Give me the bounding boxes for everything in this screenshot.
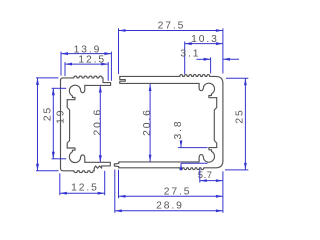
dim 3.1 left arrow xyxy=(204,58,211,61)
left profile top lip xyxy=(80,85,85,92)
dim 13.9 left extension xyxy=(60,52,62,76)
right profile channel ceiling xyxy=(120,82,199,84)
left profile bottom ribs xyxy=(73,171,94,173)
left profile top flange outline xyxy=(61,78,74,81)
dim 3.1 right tail xyxy=(223,58,239,60)
dim 27.5/10.3/3.1 right extension xyxy=(222,28,224,73)
svg-text:20.6: 20.6 xyxy=(142,108,153,136)
right profile bottom flange tip with barb xyxy=(114,162,119,168)
right profile right wall outer xyxy=(222,83,224,160)
svg-text:3.1: 3.1 xyxy=(180,49,200,60)
left profile bottom tab with teeth xyxy=(94,162,110,171)
dim 5.7 left extension xyxy=(199,169,201,183)
svg-text:19: 19 xyxy=(55,109,66,124)
dim 19 line xyxy=(52,88,54,159)
right profile top right corner xyxy=(211,76,223,83)
left profile bottom lip xyxy=(80,155,85,162)
dim 12.5 bottom right extension xyxy=(104,171,106,195)
svg-text:27.5: 27.5 xyxy=(158,21,186,32)
dim 3.8 leader and top arrow xyxy=(180,141,182,148)
right profile bottom surface xyxy=(119,167,179,169)
right profile bottom ribs xyxy=(179,168,205,170)
dim 27.5 top line xyxy=(119,30,223,32)
svg-text:20.6: 20.6 xyxy=(92,108,103,136)
dim 3.1 extension xyxy=(210,57,212,73)
dim 12.5 top right extension xyxy=(107,62,109,81)
left profile top tongue xyxy=(85,78,111,86)
dim 25 left top extension xyxy=(36,77,59,79)
dim 13.9 line xyxy=(61,53,111,55)
dim 3.1 line left tail xyxy=(197,58,211,60)
dim 3.8 bottom arrow and tail xyxy=(180,163,183,170)
right profile bottom screw boss xyxy=(204,148,217,163)
dim 19 bottom extension xyxy=(52,158,67,160)
left profile channel floor xyxy=(85,161,103,163)
left profile outer wall xyxy=(60,80,62,168)
svg-text:25: 25 xyxy=(43,106,54,121)
dim 12.5 top line xyxy=(65,63,108,65)
dim 20.6 right line xyxy=(149,84,151,162)
right profile top screw boss xyxy=(204,83,217,98)
dim 12.5 bottom line xyxy=(60,192,105,194)
dim 25 left bottom extension xyxy=(36,170,59,172)
dim 3.8 bottom extension xyxy=(181,162,208,164)
dim 19 top extension xyxy=(52,87,67,89)
dim 3.8 top extension xyxy=(178,147,208,149)
left profile top screw boss xyxy=(67,85,80,100)
svg-text:12.5: 12.5 xyxy=(71,183,99,194)
left profile bottom flange outline xyxy=(61,168,74,171)
dim 25 right top extension xyxy=(226,77,248,79)
dim 3.1 right arrow xyxy=(223,58,230,61)
dim 5.7/27.5/28.9 right extension xyxy=(222,171,224,213)
dim 5.7 line xyxy=(200,180,223,182)
left profile inner wall with rib bump xyxy=(67,100,69,148)
right profile top lip xyxy=(199,83,204,90)
dim 20.6 left line xyxy=(99,86,101,163)
right profile top ribs xyxy=(179,75,211,77)
right profile inner wall with rib bump xyxy=(214,98,216,148)
dim 25 left line xyxy=(37,78,39,171)
right profile bottom lip xyxy=(199,155,204,162)
right profile bottom right corner xyxy=(205,161,223,168)
dim 25 right line xyxy=(244,78,246,170)
dim 27.5 bottom left extension xyxy=(118,170,120,199)
dim 27.5 bottom line xyxy=(119,195,223,197)
right profile channel floor xyxy=(119,161,199,163)
dim 25 right bottom extension xyxy=(225,169,248,171)
dim 13.9 right extension xyxy=(110,52,112,81)
svg-text:25: 25 xyxy=(234,108,245,123)
right profile top surface xyxy=(120,75,179,77)
dim 28.9 left extension xyxy=(114,170,116,213)
dim 12.5 bottom left extension xyxy=(59,173,61,195)
dim 12.5 top left extension xyxy=(64,62,66,76)
svg-text:28.9: 28.9 xyxy=(156,201,184,212)
left profile bottom screw boss xyxy=(67,148,80,163)
dim 10.3 left extension xyxy=(184,42,186,75)
dim 27.5 top left extension xyxy=(118,28,120,74)
right profile top flange tip with slot xyxy=(120,76,126,83)
left profile top ribs xyxy=(73,76,103,78)
dim 10.3 line xyxy=(185,43,223,45)
svg-text:3.8: 3.8 xyxy=(173,119,184,139)
svg-text:27.5: 27.5 xyxy=(164,186,192,197)
dim 28.9 line xyxy=(115,210,223,212)
